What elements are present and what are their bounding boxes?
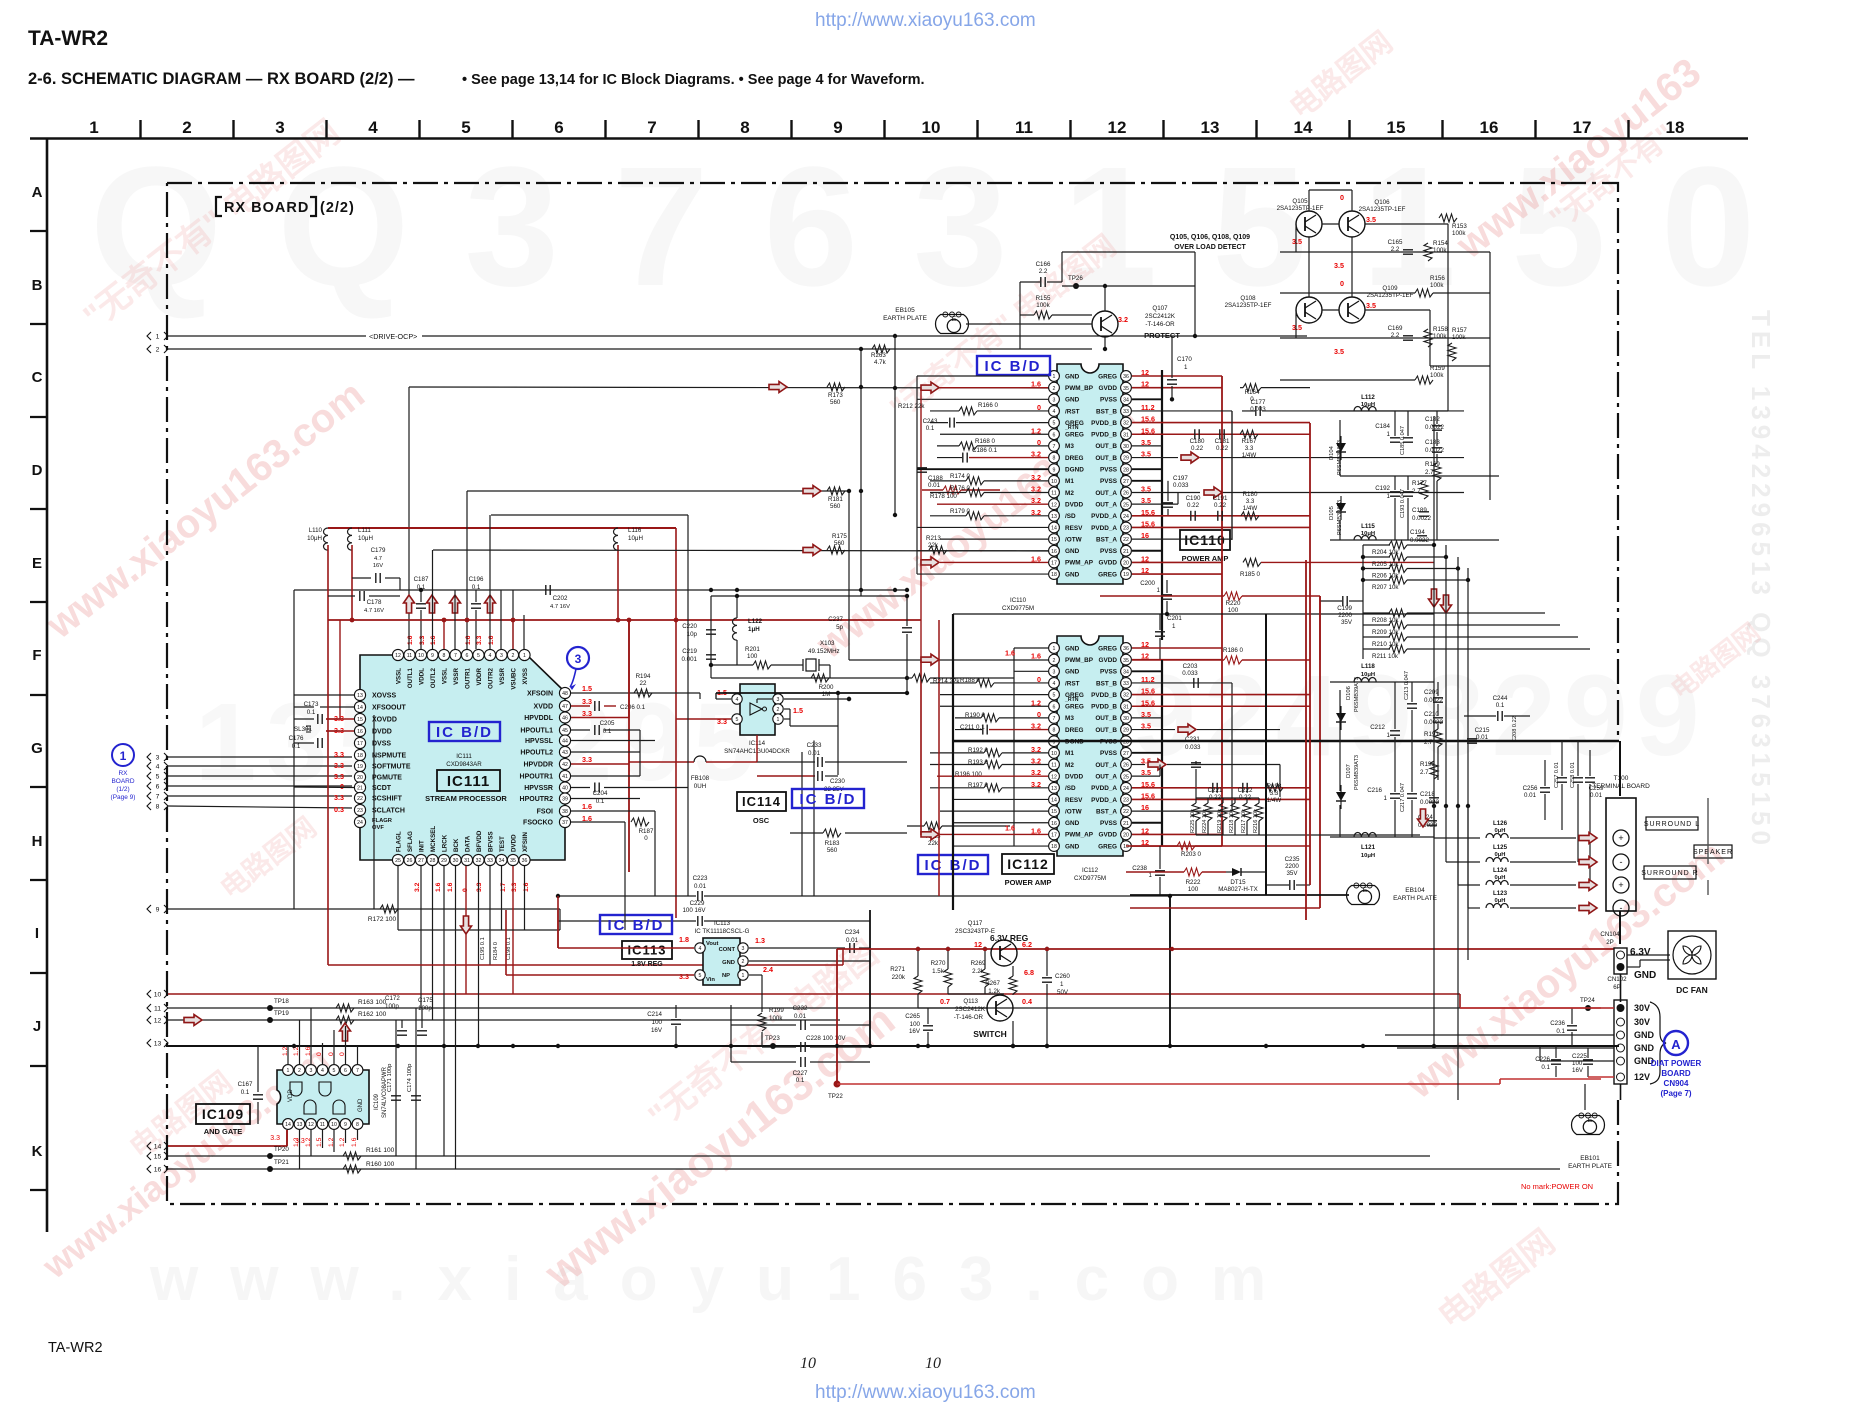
svg-text:SPEAKER: SPEAKER — [1693, 849, 1733, 856]
svg-text:1: 1 — [89, 118, 98, 137]
svg-text:GND: GND — [1065, 373, 1080, 380]
svg-text:C234: C234 — [845, 929, 860, 936]
svg-text:1.6: 1.6 — [465, 635, 472, 645]
svg-text:1: 1 — [1387, 431, 1391, 438]
svg-text:R163 100: R163 100 — [358, 999, 387, 1006]
svg-text:AND GATE: AND GATE — [204, 1127, 243, 1136]
svg-text:GND: GND — [358, 1098, 364, 1112]
svg-text:15: 15 — [1051, 809, 1057, 815]
svg-text:0.7: 0.7 — [940, 997, 950, 1006]
svg-text:M2: M2 — [1065, 490, 1074, 497]
svg-text:C190: C190 — [1186, 495, 1201, 502]
svg-text:0.033: 0.033 — [1185, 744, 1201, 751]
svg-text:RESV: RESV — [1065, 797, 1083, 804]
svg-text:SURROUND R: SURROUND R — [1641, 870, 1698, 877]
svg-text:TP19: TP19 — [274, 1010, 289, 1017]
svg-text:R196 100: R196 100 — [955, 771, 982, 778]
svg-text:R208 10k: R208 10k — [1372, 617, 1399, 624]
svg-text:1: 1 — [1053, 374, 1056, 380]
svg-text:TP20: TP20 — [274, 1146, 289, 1153]
svg-text:K: K — [32, 1143, 43, 1160]
svg-text:1/4W: 1/4W — [1267, 797, 1282, 804]
svg-text:GND: GND — [1065, 669, 1080, 676]
svg-text:F: F — [32, 647, 41, 664]
svg-text:2SA1235TP-1EF: 2SA1235TP-1EF — [1225, 302, 1272, 309]
svg-text:10: 10 — [800, 1355, 816, 1372]
svg-text:DREG: DREG — [1065, 455, 1083, 462]
svg-text:L124: L124 — [1493, 867, 1508, 874]
svg-text:Vin: Vin — [706, 977, 715, 983]
svg-text:0.01: 0.01 — [1476, 734, 1489, 741]
svg-text:10μH: 10μH — [358, 535, 373, 542]
svg-text:3.5: 3.5 — [1366, 301, 1376, 310]
svg-text:2SA1235TP-1EF: 2SA1235TP-1EF — [1277, 205, 1324, 212]
svg-text:R157: R157 — [1452, 327, 1467, 334]
svg-text:1.6: 1.6 — [1031, 652, 1041, 661]
svg-text:PVDD_B: PVDD_B — [1091, 704, 1117, 711]
svg-text:www.xiaoyu163.com: www.xiaoyu163.com — [149, 1245, 1298, 1314]
svg-text:C203: C203 — [1183, 663, 1198, 670]
svg-text:0.1: 0.1 — [796, 1077, 805, 1084]
svg-text:10μH: 10μH — [628, 535, 643, 542]
svg-text:HPVSSR: HPVSSR — [524, 785, 553, 792]
svg-text:DATA: DATA — [465, 835, 472, 852]
svg-text:19: 19 — [357, 764, 363, 770]
svg-text:(1/2): (1/2) — [116, 786, 129, 793]
svg-text:100: 100 — [652, 1019, 663, 1026]
svg-text:PWM_BP: PWM_BP — [1065, 657, 1094, 664]
svg-text:C212: C212 — [1370, 724, 1385, 731]
svg-text:/RST: /RST — [1065, 680, 1080, 687]
svg-text:R184 0: R184 0 — [493, 942, 499, 960]
svg-text:M3: M3 — [1065, 443, 1074, 450]
svg-text:1: 1 — [1157, 587, 1161, 594]
svg-text:2.2: 2.2 — [1039, 268, 1048, 275]
svg-text:2.4: 2.4 — [763, 965, 773, 974]
svg-text:BOARD: BOARD — [1661, 1069, 1691, 1078]
svg-text:R267: R267 — [985, 980, 1000, 987]
svg-text:0.001: 0.001 — [682, 656, 698, 663]
svg-text:16: 16 — [1051, 821, 1057, 827]
svg-text:X103: X103 — [820, 640, 835, 647]
svg-text:6: 6 — [466, 653, 469, 659]
svg-text:12: 12 — [154, 1018, 162, 1025]
svg-text:2.2: 2.2 — [1391, 332, 1400, 339]
svg-text:31: 31 — [464, 858, 470, 864]
svg-text:36: 36 — [1123, 646, 1129, 652]
svg-text:E: E — [32, 555, 42, 572]
svg-text:OUT_A: OUT_A — [1095, 490, 1117, 497]
svg-text:PVDD_A: PVDD_A — [1091, 785, 1117, 792]
svg-text:BST_B: BST_B — [1096, 408, 1117, 415]
svg-text:45: 45 — [562, 728, 568, 734]
svg-text:<DRIVE-OCP>: <DRIVE-OCP> — [369, 332, 417, 341]
svg-text:A: A — [1671, 1037, 1681, 1052]
svg-text:Q108: Q108 — [1240, 295, 1256, 302]
svg-text:FSOI: FSOI — [537, 809, 553, 816]
svg-text:0.1: 0.1 — [926, 425, 935, 432]
svg-text:R181: R181 — [828, 496, 843, 503]
svg-text:PVDD_A: PVDD_A — [1091, 797, 1117, 804]
svg-text:R220: R220 — [1226, 600, 1241, 607]
svg-text:R173: R173 — [828, 392, 843, 399]
svg-text:GND: GND — [1634, 1043, 1655, 1053]
svg-text:18: 18 — [1051, 572, 1057, 578]
svg-text:27: 27 — [1123, 751, 1129, 757]
svg-text:IC114: IC114 — [742, 794, 781, 809]
svg-text:P6SMB39AT3: P6SMB39AT3 — [1354, 755, 1360, 790]
svg-text:R167: R167 — [1242, 438, 1257, 445]
svg-text:GREG: GREG — [1098, 571, 1117, 578]
svg-text:INIT: INIT — [419, 840, 426, 852]
svg-text:Q105, Q106, Q108, Q109: Q105, Q106, Q108, Q109 — [1170, 234, 1250, 241]
svg-text:34: 34 — [1123, 669, 1129, 675]
svg-text:13: 13 — [1051, 786, 1057, 792]
svg-text:22: 22 — [1123, 809, 1129, 815]
svg-text:3: 3 — [575, 652, 582, 666]
svg-text:RX BOARD: RX BOARD — [224, 200, 309, 216]
svg-text:0.1: 0.1 — [1556, 1028, 1565, 1035]
svg-text:TEST: TEST — [499, 836, 506, 852]
svg-text:C175: C175 — [418, 997, 433, 1004]
svg-text:4: 4 — [736, 697, 739, 703]
svg-text:IC111: IC111 — [456, 753, 472, 760]
svg-text:R194: R194 — [636, 673, 651, 680]
svg-text:C200: C200 — [1140, 580, 1155, 587]
svg-text:XFSIIN: XFSIIN — [522, 832, 529, 852]
svg-text:PVSS: PVSS — [1100, 478, 1118, 485]
svg-text:PVDD_B: PVDD_B — [1091, 692, 1117, 699]
svg-text:C178: C178 — [367, 599, 382, 606]
svg-text:3.3: 3.3 — [334, 793, 344, 802]
svg-text:7: 7 — [454, 653, 457, 659]
svg-text:10μH: 10μH — [307, 535, 322, 542]
svg-text:HPVDDR: HPVDDR — [523, 762, 553, 769]
svg-text:-: - — [1620, 857, 1623, 867]
svg-text:14: 14 — [154, 1144, 162, 1151]
svg-text:5: 5 — [156, 774, 160, 781]
svg-text:11: 11 — [1051, 763, 1056, 769]
svg-text:49.152MHz: 49.152MHz — [808, 648, 840, 655]
svg-text:OUT_B: OUT_B — [1095, 727, 1117, 734]
svg-text:XVSS: XVSS — [522, 668, 529, 685]
svg-text:C202: C202 — [553, 595, 568, 602]
svg-text:2P: 2P — [1606, 939, 1614, 946]
svg-text:IC110: IC110 — [1010, 597, 1027, 604]
svg-text:_RTN: _RTN — [1064, 697, 1079, 703]
svg-text:4: 4 — [1053, 681, 1056, 687]
svg-text:37: 37 — [562, 820, 568, 826]
svg-text:M1: M1 — [1065, 478, 1074, 485]
svg-text:R212 22k: R212 22k — [898, 403, 925, 410]
svg-text:41: 41 — [562, 774, 568, 780]
svg-text:CONT: CONT — [719, 947, 736, 953]
svg-text:1/4W: 1/4W — [1243, 505, 1258, 512]
svg-text:C166: C166 — [1036, 261, 1051, 268]
svg-text:BST_A: BST_A — [1096, 808, 1117, 815]
svg-text:C222: C222 — [1238, 787, 1253, 794]
svg-text:30V: 30V — [1634, 1017, 1650, 1027]
svg-text:3.3: 3.3 — [1245, 445, 1254, 452]
svg-text:RX: RX — [118, 770, 128, 777]
svg-text:2: 2 — [777, 707, 780, 713]
svg-text:Vout: Vout — [706, 941, 719, 947]
svg-text:R224 10k: R224 10k — [1202, 809, 1208, 833]
svg-text:TP24: TP24 — [1580, 997, 1595, 1004]
svg-text:2SC2412K: 2SC2412K — [955, 1006, 986, 1013]
svg-text:C235: C235 — [1285, 856, 1300, 863]
svg-text:R269: R269 — [971, 960, 986, 967]
svg-text:IC111: IC111 — [447, 773, 490, 790]
svg-text:OUT_A: OUT_A — [1095, 501, 1117, 508]
svg-text:13: 13 — [154, 1041, 162, 1048]
svg-text:E: E — [1363, 887, 1368, 894]
svg-text:5: 5 — [1053, 693, 1056, 699]
svg-text:2: 2 — [742, 959, 745, 965]
svg-text:/OTW: /OTW — [1065, 536, 1083, 543]
svg-text:3.3: 3.3 — [679, 972, 689, 981]
svg-text:R175: R175 — [832, 533, 847, 540]
svg-text:100k: 100k — [1430, 282, 1444, 289]
svg-text:1: 1 — [1053, 646, 1056, 652]
svg-text:39: 39 — [562, 797, 568, 803]
svg-text:7: 7 — [356, 1068, 359, 1074]
svg-text:2SC2412K: 2SC2412K — [1145, 313, 1176, 320]
svg-text:0: 0 — [644, 835, 648, 842]
svg-text:C183: C183 — [1425, 439, 1440, 446]
svg-text:PVDD_B: PVDD_B — [1091, 432, 1117, 439]
svg-text:DC FAN: DC FAN — [1676, 985, 1708, 995]
svg-text:14: 14 — [1294, 118, 1313, 137]
svg-text:40: 40 — [562, 786, 568, 792]
svg-text:IC B/D: IC B/D — [436, 724, 493, 741]
svg-text:10: 10 — [1051, 751, 1057, 757]
svg-text:BFVDD: BFVDD — [476, 830, 483, 852]
svg-text:J: J — [33, 1018, 41, 1035]
svg-text:10μH: 10μH — [1361, 672, 1375, 678]
svg-text:560: 560 — [827, 847, 838, 854]
svg-text:C260: C260 — [1055, 973, 1070, 980]
svg-text:C257 0.01: C257 0.01 — [1554, 762, 1560, 788]
svg-text:1.2k: 1.2k — [988, 988, 1001, 995]
svg-text:R207 10k: R207 10k — [1372, 584, 1399, 591]
svg-text:50V: 50V — [1057, 989, 1069, 996]
svg-text:EARTH PLATE: EARTH PLATE — [1393, 895, 1437, 902]
svg-text:4: 4 — [156, 764, 160, 771]
svg-text:EARTH PLATE: EARTH PLATE — [883, 315, 927, 322]
svg-text:0.4: 0.4 — [1022, 997, 1032, 1006]
svg-text:Q106: Q106 — [1374, 199, 1390, 206]
svg-text:C: C — [32, 369, 43, 386]
svg-text:TP21: TP21 — [274, 1159, 289, 1166]
svg-text:TP23: TP23 — [765, 1035, 780, 1042]
svg-text:9: 9 — [156, 907, 160, 914]
svg-text:L111: L111 — [358, 527, 371, 534]
svg-text:31: 31 — [1123, 432, 1129, 438]
svg-text:R216 10k: R216 10k — [1253, 809, 1259, 833]
svg-text:0.1: 0.1 — [472, 584, 481, 591]
svg-text:12: 12 — [1051, 502, 1057, 508]
svg-text:GVDD: GVDD — [1099, 385, 1118, 392]
svg-text:R187: R187 — [639, 828, 654, 835]
svg-text:34: 34 — [1123, 397, 1129, 403]
svg-text:10: 10 — [922, 118, 941, 137]
svg-text:1: 1 — [1384, 795, 1388, 802]
svg-text:1.8: 1.8 — [679, 935, 689, 944]
svg-text:6: 6 — [1053, 432, 1056, 438]
svg-text:0.01: 0.01 — [928, 482, 941, 489]
svg-text:46: 46 — [562, 716, 568, 722]
svg-text:P6SMB39AT3: P6SMB39AT3 — [1354, 677, 1360, 712]
svg-text:29: 29 — [1123, 456, 1129, 462]
svg-text:21: 21 — [1123, 549, 1129, 555]
svg-text:5: 5 — [477, 653, 480, 659]
svg-text:CXD9775M: CXD9775M — [1002, 605, 1034, 612]
svg-text:4: 4 — [489, 653, 492, 659]
svg-text:C238: C238 — [1132, 865, 1147, 872]
svg-text:GREG: GREG — [1098, 645, 1117, 652]
svg-text:1: 1 — [1184, 364, 1188, 371]
svg-text:SCSHIFT: SCSHIFT — [372, 796, 403, 803]
svg-text:TA-WR2: TA-WR2 — [48, 1340, 103, 1356]
svg-text:R203 0: R203 0 — [1181, 851, 1202, 858]
svg-text:_RTN: _RTN — [1064, 425, 1079, 431]
svg-text:2: 2 — [298, 1068, 301, 1074]
svg-text:HPOUTL1: HPOUTL1 — [520, 728, 553, 735]
svg-text:32: 32 — [476, 858, 482, 864]
svg-text:30V: 30V — [1634, 1003, 1650, 1013]
svg-text:PVSS: PVSS — [1100, 820, 1118, 827]
svg-text:L121: L121 — [1361, 844, 1376, 851]
svg-text:26: 26 — [1123, 491, 1129, 497]
svg-text:38: 38 — [562, 809, 568, 815]
svg-text:C236: C236 — [1550, 1020, 1565, 1027]
svg-text:D107: D107 — [1346, 764, 1352, 778]
svg-text:560: 560 — [830, 503, 841, 510]
svg-text:C206 0.1: C206 0.1 — [620, 704, 646, 711]
svg-text:3.3: 3.3 — [582, 755, 592, 764]
svg-text:CN102: CN102 — [1607, 976, 1627, 983]
svg-text:5: 5 — [333, 1068, 336, 1074]
svg-text:1: 1 — [1387, 493, 1391, 500]
svg-text:2.2: 2.2 — [1391, 246, 1400, 253]
svg-text:25: 25 — [395, 858, 401, 864]
svg-text:R219 10k: R219 10k — [1217, 809, 1223, 833]
svg-text:M3: M3 — [1065, 715, 1074, 722]
svg-text:13: 13 — [1051, 514, 1057, 520]
svg-text:3.3: 3.3 — [1246, 498, 1255, 505]
svg-text:2: 2 — [1053, 658, 1056, 664]
svg-text:12: 12 — [974, 940, 982, 949]
svg-text:9: 9 — [1053, 467, 1056, 473]
svg-text:10: 10 — [331, 1122, 337, 1128]
svg-text:C243: C243 — [923, 418, 938, 425]
svg-text:3.3: 3.3 — [334, 761, 344, 770]
svg-text:14: 14 — [285, 1122, 291, 1128]
svg-text:T100: T100 — [1614, 775, 1629, 782]
svg-text:IC109: IC109 — [202, 1106, 244, 1122]
svg-text:IC112: IC112 — [1007, 856, 1049, 872]
svg-text:0μH: 0μH — [1495, 898, 1506, 904]
svg-text:PVDD_A: PVDD_A — [1091, 513, 1117, 520]
svg-text:5: 5 — [699, 973, 702, 979]
svg-text:4.7: 4.7 — [374, 556, 382, 562]
svg-text:16V: 16V — [1572, 1067, 1584, 1074]
svg-text:MCKSEL: MCKSEL — [430, 826, 437, 852]
svg-text:OUT_A: OUT_A — [1095, 773, 1117, 780]
svg-text:19: 19 — [1123, 844, 1129, 850]
svg-text:GREG: GREG — [1098, 373, 1117, 380]
svg-text:1: 1 — [742, 973, 745, 979]
svg-text:1: 1 — [287, 1068, 290, 1074]
svg-text:1: 1 — [1060, 981, 1064, 988]
svg-text:+: + — [1618, 880, 1623, 890]
svg-text:3: 3 — [275, 118, 284, 137]
svg-text:1.8V REG: 1.8V REG — [631, 961, 663, 968]
svg-text:35: 35 — [1123, 386, 1129, 392]
svg-text:L115: L115 — [1361, 523, 1375, 530]
svg-text:3.3: 3.3 — [582, 709, 592, 718]
svg-text:16: 16 — [357, 729, 363, 735]
svg-text:C215: C215 — [1475, 727, 1490, 734]
svg-text:35V: 35V — [1286, 870, 1298, 877]
svg-text:L122: L122 — [748, 618, 763, 625]
svg-text:13: 13 — [1201, 118, 1220, 137]
svg-text:C256: C256 — [1523, 785, 1538, 792]
svg-text:C226: C226 — [1535, 1056, 1550, 1063]
svg-text:32: 32 — [1123, 693, 1129, 699]
svg-text:47: 47 — [562, 704, 568, 710]
svg-text:5: 5 — [461, 118, 470, 137]
svg-text:100p: 100p — [385, 1003, 399, 1010]
svg-text:18: 18 — [1666, 118, 1685, 137]
svg-text:C258 0.01: C258 0.01 — [1570, 762, 1576, 788]
svg-text:POWER AMP: POWER AMP — [1005, 878, 1052, 887]
svg-text:1.5: 1.5 — [793, 706, 803, 715]
svg-text:19: 19 — [1123, 572, 1129, 578]
svg-text:42: 42 — [562, 762, 568, 768]
svg-text:18: 18 — [1051, 844, 1057, 850]
svg-text:0.01: 0.01 — [1524, 792, 1537, 799]
svg-text:36: 36 — [1123, 374, 1129, 380]
svg-text:27: 27 — [1123, 479, 1129, 485]
svg-text:C223: C223 — [693, 875, 708, 882]
svg-text:25: 25 — [1123, 502, 1129, 508]
svg-text:R168 0: R168 0 — [975, 438, 996, 445]
svg-text:28: 28 — [1123, 467, 1129, 473]
svg-text:L125: L125 — [1493, 844, 1508, 851]
svg-text:C221: C221 — [1208, 787, 1223, 794]
svg-text:R186 0: R186 0 — [1223, 647, 1244, 654]
svg-text:22k: 22k — [928, 542, 939, 549]
svg-text:C167: C167 — [238, 1081, 253, 1088]
svg-text:6.8: 6.8 — [1024, 968, 1034, 977]
svg-text:STREAM PROCESSOR: STREAM PROCESSOR — [425, 794, 507, 803]
svg-text:16V: 16V — [651, 1027, 663, 1034]
svg-text:12V: 12V — [1634, 1072, 1650, 1082]
svg-text:1.6: 1.6 — [447, 882, 454, 892]
svg-text:TP26: TP26 — [1068, 275, 1083, 282]
svg-text:28: 28 — [430, 858, 436, 864]
svg-text:1.6: 1.6 — [1005, 649, 1015, 658]
svg-text:3.3: 3.3 — [582, 697, 592, 706]
svg-text:13: 13 — [297, 1122, 303, 1128]
svg-text:GREG: GREG — [1065, 704, 1084, 711]
svg-text:23: 23 — [357, 808, 363, 814]
svg-text:C210: C210 — [1424, 711, 1439, 718]
svg-text:C228 100 10V: C228 100 10V — [806, 1035, 846, 1042]
svg-text:HPVSSL: HPVSSL — [525, 738, 554, 745]
